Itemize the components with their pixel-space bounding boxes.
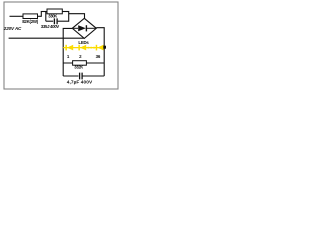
wire R3 row: [63, 62, 104, 64]
capacitor C2 plates: [80, 73, 83, 80]
LED D1: [65, 45, 73, 51]
wire top rail left: [41, 11, 47, 13]
bridge rectifier BR1 diamond: [72, 18, 96, 38]
wire AC input: [10, 15, 24, 17]
wire top rail right: [62, 11, 69, 13]
resistor R1 82K body: [23, 14, 38, 19]
resistor R2 330K body: [47, 9, 62, 14]
svg-text:82K(2W): 82K(2W): [22, 19, 39, 24]
wire bridge right DC out: [96, 28, 104, 76]
bridge diode symbol: [73, 27, 78, 29]
svg-text:LEDs: LEDs: [78, 40, 89, 45]
wire C2 row: [63, 75, 104, 77]
LED row wire: [63, 47, 104, 49]
border frame: [4, 2, 118, 89]
LED D36: [96, 45, 104, 51]
svg-text:4,7µF 400V: 4,7µF 400V: [67, 80, 93, 86]
wire R1 to riser: [38, 15, 42, 17]
svg-text:335J 400V: 335J 400V: [41, 24, 60, 29]
svg-text:330K: 330K: [48, 13, 57, 18]
wire C1 right stub: [68, 12, 70, 22]
resistor R3 332K body: [73, 61, 87, 65]
wire to bridge: [69, 14, 85, 19]
junction dot LED row / right rail: [103, 46, 106, 49]
svg-text:36: 36: [96, 54, 101, 59]
wire C1 left stub: [45, 12, 47, 22]
capacitor C1 plates: [54, 18, 57, 24]
LED D2: [78, 45, 86, 51]
wire C1 right lead: [58, 20, 69, 22]
wire AC neutral to bridge bottom: [9, 37, 85, 39]
wire riser up: [40, 12, 42, 17]
LED ellipsis dots: [88, 47, 95, 49]
svg-text:220V AC: 220V AC: [3, 26, 22, 31]
svg-text:332K: 332K: [74, 65, 83, 70]
wire bridge left DC out: [63, 28, 72, 76]
wire C1 left lead: [46, 20, 53, 22]
